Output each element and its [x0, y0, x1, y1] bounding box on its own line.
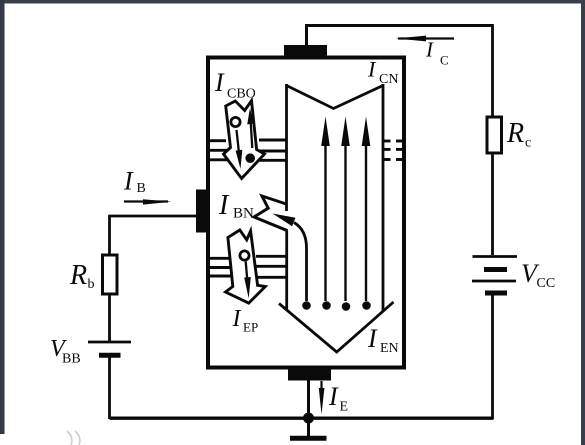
arrow IE (emitter current down) [319, 381, 325, 415]
svg-text:c: c [525, 136, 531, 151]
wire: left vertical (Rb to Vbb) [108, 294, 111, 342]
ICBO hole drift arrow (down) [237, 130, 240, 153]
base contact [196, 190, 210, 233]
electron stream arrows (ICN, three up arrows) [326, 140, 367, 301]
collector-base junction lines (left of ICBO ribbon) [210, 141, 228, 160]
wire: left vertical (Vbb to bottom) [108, 355, 111, 419]
wire: bottom horizontal [110, 417, 494, 420]
svg-text:B: B [137, 181, 146, 196]
collector contact [284, 45, 327, 59]
svg-text:CBO: CBO [227, 87, 256, 102]
collector-base junction lines (right of ICBO ribbon) [259, 140, 287, 160]
ICBO electron drift arrow (up) [251, 124, 253, 148]
wire: right vertical (Rc to Vcc) [491, 153, 494, 255]
arrow IB (base current) [124, 199, 172, 204]
battery VBB [88, 342, 131, 355]
transistor body outline [208, 58, 404, 368]
electron dots at emitter (four) [302, 301, 371, 311]
emitter-base junction lines (right of IEP ribbon) [255, 256, 286, 277]
ICBO hole (open circle) [231, 117, 240, 126]
resistor Rc [487, 117, 502, 153]
svg-text:E: E [340, 400, 349, 415]
ICBO electron dot [245, 153, 255, 163]
ICBO ribbon arrow [224, 101, 265, 179]
junction: emitter node on bottom wire [303, 413, 314, 424]
svg-text:R: R [506, 118, 524, 149]
svg-text:I: I [328, 382, 339, 411]
arrow IC (current into collector from right) [396, 36, 455, 42]
svg-text:EN: EN [380, 341, 399, 356]
emitter-base junction lines (left of IEP ribbon) [210, 258, 232, 276]
svg-text:b: b [88, 277, 95, 292]
svg-text:I: I [218, 190, 230, 221]
svg-text:CC: CC [537, 276, 556, 291]
svg-text:I: I [232, 306, 242, 332]
battery VCC [472, 257, 517, 294]
ground [290, 418, 327, 438]
wire: left vertical (base wire to Rb) [108, 215, 111, 256]
wire: top horizontal [305, 24, 494, 27]
svg-text:R: R [69, 260, 87, 291]
collector-base junction dashes (right of funnel) [384, 141, 402, 160]
IEP hole drift arrow (down) [246, 262, 248, 281]
electron funnel outline (ICN channel) [279, 84, 394, 352]
svg-text:I: I [123, 167, 134, 196]
svg-text:BN: BN [233, 206, 254, 222]
svg-text:C: C [440, 53, 449, 68]
wire: right vertical (top segment to Rc) [491, 24, 494, 117]
resistor Rb [103, 255, 118, 294]
svg-text:CN: CN [379, 72, 398, 87]
wire: base horizontal [109, 215, 201, 218]
svg-text:BB: BB [62, 352, 81, 367]
IBN ribbon arrow [254, 196, 288, 231]
IEP hole (open circle) [240, 251, 249, 260]
emitter contact [288, 367, 331, 381]
svg-text:I: I [367, 324, 378, 353]
wire: emitter lead down [307, 380, 310, 418]
IEP ribbon arrow [226, 230, 266, 303]
wire: right vertical (Vcc to bottom) [491, 295, 494, 419]
svg-text:I: I [214, 68, 225, 97]
wire: collector lead up [305, 26, 308, 46]
svg-text:I: I [425, 38, 434, 62]
IBN recombination path (curved, from left stream to base) [294, 223, 307, 302]
svg-text:EP: EP [243, 320, 258, 335]
